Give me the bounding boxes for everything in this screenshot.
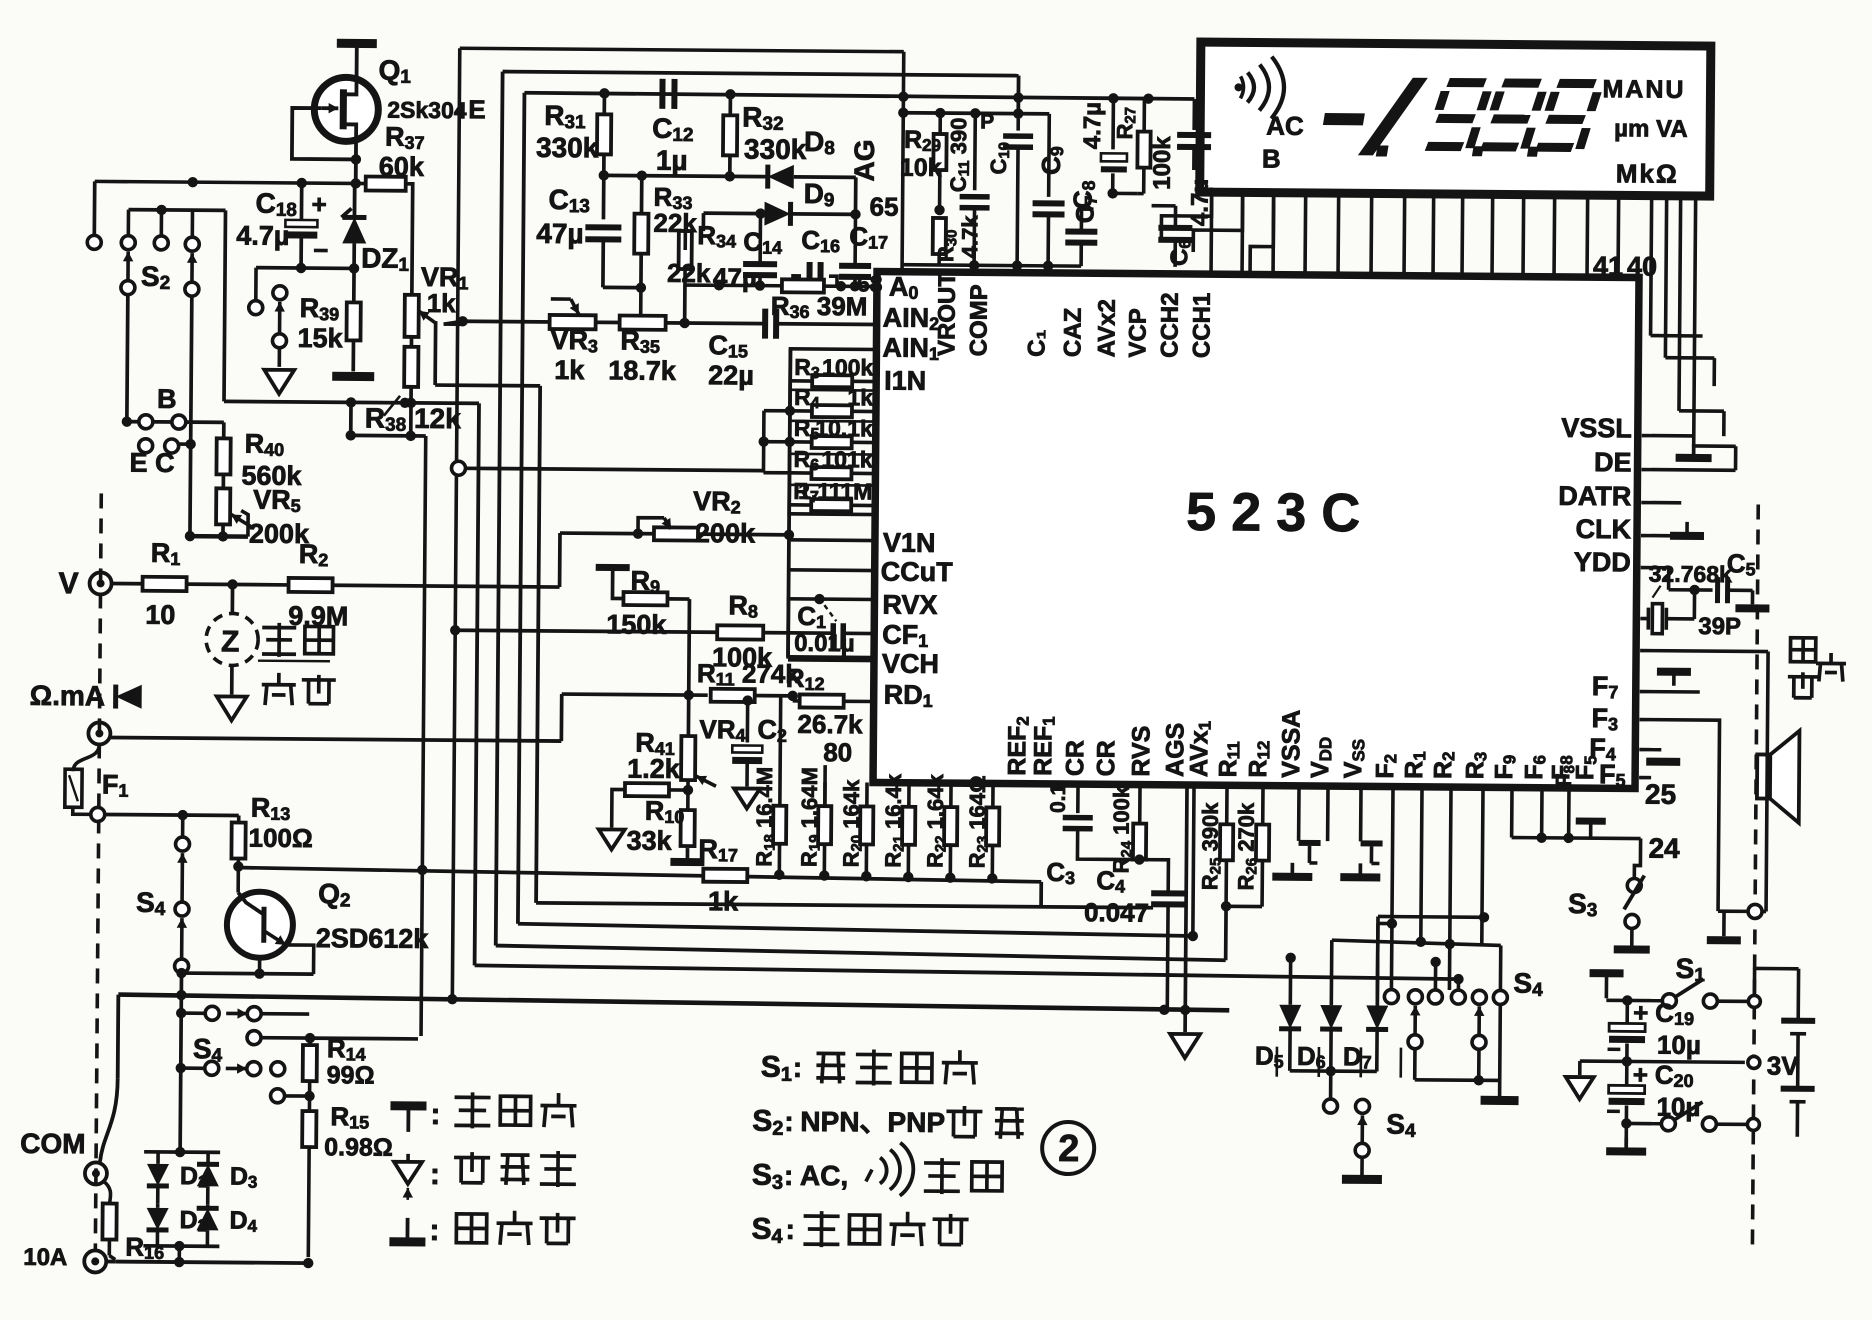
svg-text:Ω.mA: Ω.mA: [30, 680, 106, 712]
svg-text:1.111M: 1.111M: [798, 478, 872, 505]
negative supply S3: [1614, 945, 1650, 953]
wire DATR stub: [1641, 501, 1681, 505]
wire S2c down: [191, 296, 192, 444]
svg-text:CAZ: CAZ: [1059, 308, 1086, 358]
svg-text:VCP: VCP: [1124, 308, 1151, 358]
contact B1: [139, 415, 153, 429]
svg-text:5 2 3 C: 5 2 3 C: [1186, 482, 1361, 543]
resistor R41: [625, 783, 669, 796]
svg-text:R19 1.64M: R19 1.64M: [796, 767, 823, 867]
wire omega to F1 curve: [73, 744, 99, 771]
svg-text:100Ω: 100Ω: [248, 823, 312, 854]
capacitor C4: [1151, 890, 1185, 896]
svg-text:10µ: 10µ: [1657, 1030, 1701, 1060]
bus C y949: [496, 946, 1226, 961]
svg-text:+: +: [311, 189, 326, 219]
svg-text:10.1k: 10.1k: [815, 415, 873, 441]
svg-text:101k: 101k: [821, 446, 873, 472]
wire bridge bottom out: [177, 1246, 181, 1262]
capacitor C6: [1158, 225, 1192, 231]
svg-text:CCuT: CCuT: [881, 557, 954, 588]
svg-text:COMP: COMP: [965, 284, 993, 356]
svg-text:CLK: CLK: [1575, 514, 1631, 544]
wire VR1 wiper row: [444, 322, 463, 326]
bar F4: [1646, 758, 1680, 766]
wire DE stub: [1642, 468, 1736, 472]
switch S2 arrow c: [190, 253, 194, 282]
positive supply CLK: [1685, 522, 1689, 534]
wire R41 left down: [612, 789, 625, 827]
contact r15: [271, 1089, 285, 1103]
wire y273: [256, 266, 354, 270]
negative supply d567: [1342, 1175, 1382, 1184]
svg-text:1k: 1k: [427, 288, 457, 318]
resistor R25: [1220, 824, 1233, 860]
wire Q2 emitter bracket: [286, 945, 314, 974]
contact C2s: [165, 439, 179, 453]
negative supply under R39: [332, 372, 374, 381]
wire BEC row2: [179, 442, 191, 446]
svg-text:VSSA: VSSA: [1277, 710, 1306, 778]
analog ground c19: [1578, 1061, 1582, 1075]
svg-text:E C: E C: [129, 448, 174, 478]
diode D2: [156, 1204, 160, 1208]
zener DZ1: [353, 183, 357, 217]
analog ground R41: [599, 829, 625, 849]
capacitor C6a: [1192, 99, 1196, 130]
svg-text::: :: [785, 1214, 795, 1245]
wire omega to R11 riser: [560, 694, 564, 741]
diode D6: [1320, 1005, 1342, 1029]
analog ground under C2: [734, 788, 760, 808]
wire piezo gnd: [1718, 909, 1748, 913]
wire S2a down: [125, 295, 130, 422]
svg-text:26.7k: 26.7k: [797, 709, 863, 740]
resistor R22: [944, 807, 957, 845]
wire crystal top: [1693, 590, 1697, 619]
svg-text:−: −: [1606, 1098, 1620, 1125]
svg-text:99Ω: 99Ω: [327, 1061, 375, 1089]
svg-text:10: 10: [145, 600, 175, 630]
loop box1 left: [452, 48, 459, 1001]
svg-text:150k: 150k: [606, 609, 667, 639]
wire y113: [903, 113, 1049, 114]
resistor R11: [711, 689, 755, 702]
wire F3 long: [1638, 720, 1719, 912]
switch S2 contact a: [127, 210, 131, 235]
resistor R14: [308, 1038, 312, 1045]
positive supply F7: [1657, 668, 1691, 676]
svg-text:YDD: YDD: [1574, 547, 1631, 577]
contact B2: [172, 415, 186, 429]
legend analog ground: [406, 1154, 410, 1162]
svg-text:65: 65: [869, 191, 898, 221]
wire 10A join: [106, 1260, 115, 1264]
wire C1 to CF1: [843, 631, 874, 635]
svg-text:15k: 15k: [297, 323, 343, 353]
wire y290 C13 R33: [603, 286, 641, 290]
analog ground under contact chain: [264, 370, 294, 394]
svg-text:10A: 10A: [23, 1244, 67, 1271]
wire R11 row: [562, 694, 708, 695]
wire main rail y188: [95, 181, 367, 183]
svg-text:AG: AG: [849, 139, 880, 181]
svg-text:CR: CR: [1061, 740, 1089, 776]
wire F2 col: [1392, 787, 1393, 924]
svg-text:80: 80: [823, 737, 852, 767]
resistor R1: [143, 577, 187, 591]
svg-text:C₁: C₁: [1023, 329, 1050, 357]
negative supply under R10: [686, 848, 690, 862]
loop box2 left: [496, 72, 503, 946]
vertical x477: [475, 403, 479, 965]
svg-text:NPN、PNP: NPN、PNP: [800, 1106, 945, 1138]
resistor R15: [308, 1096, 312, 1111]
wire VSS stub: [1359, 786, 1363, 841]
diode D8: [768, 165, 794, 189]
transistor Q1: [314, 77, 379, 142]
svg-text:DATR: DATR: [1558, 481, 1631, 512]
legend negative text: [456, 1214, 486, 1243]
resistor R9: [612, 567, 622, 598]
wire D8 corner: [854, 177, 858, 214]
resistor R2: [289, 578, 333, 592]
wire BEC row1: [127, 420, 224, 424]
switch S3: [1627, 878, 1641, 892]
wire Q2 collector: [236, 867, 240, 893]
loop box1 top: [460, 48, 904, 51]
wire R25R26 join: [1226, 904, 1262, 908]
negative supply VSSL: [1692, 444, 1696, 458]
display wires right of IC: [1651, 196, 1652, 336]
bus A2 y906: [536, 903, 1153, 908]
wire F5 stub: [1639, 776, 1651, 780]
wire F4 stub: [1639, 748, 1661, 752]
wire VR2 to rail: [698, 532, 789, 536]
potentiometer VR1: [405, 295, 419, 337]
terminal ring omega: [88, 722, 110, 744]
capacitor C14: [743, 261, 777, 267]
svg-text:10k: 10k: [900, 154, 942, 182]
crystal X1: [1652, 604, 1662, 634]
wire VDD stub: [1326, 786, 1330, 841]
loop box2 right: [1016, 76, 1020, 119]
svg-text:3V: 3V: [1767, 1051, 1800, 1081]
svg-text::: :: [430, 1158, 440, 1191]
wire C7 node: [1107, 188, 1117, 198]
wire s4 bottom join: [1413, 1049, 1417, 1080]
wire YDD stub: [1641, 566, 1669, 570]
capacitor C8: [1065, 229, 1097, 235]
diode box dividers: [1275, 1047, 1278, 1077]
svg-text:39P: 39P: [1698, 613, 1741, 640]
wire Q1 source down: [354, 155, 358, 183]
resistor R12: [800, 694, 844, 707]
switch contact chain mid: [273, 286, 287, 300]
wire y287 R36 row: [685, 285, 877, 287]
loop box3 top C12 line: [524, 93, 1194, 99]
svg-text:Z: Z: [221, 625, 240, 658]
capacitor C3: [1076, 784, 1080, 813]
wire F1 row y821: [105, 814, 239, 815]
circled 2: [1042, 1122, 1094, 1174]
resistor R18: [773, 806, 786, 844]
svg-text::: :: [793, 1052, 803, 1083]
svg-text:V: V: [58, 567, 78, 600]
diode D4: [206, 1204, 210, 1208]
wire V to R1: [112, 582, 143, 586]
capacitor C1: [830, 623, 836, 649]
wire R34 column: [683, 285, 687, 323]
svg-text:47µ: 47µ: [536, 218, 584, 249]
resistor R32: [728, 94, 732, 116]
analog ground AGS: [1170, 1034, 1200, 1058]
resistor R20: [860, 806, 873, 844]
resistor R7: [811, 499, 851, 511]
capacitor C11: [973, 113, 977, 190]
svg-text:R36 39M: R36 39M: [771, 291, 868, 323]
switch S4 q2 col: [181, 815, 185, 837]
capacitor C7: [1111, 99, 1115, 149]
capacitor C5: [1715, 577, 1720, 603]
wire F8 col: [1567, 788, 1571, 838]
resistor R16: [102, 1203, 116, 1239]
svg-text:4.7µ: 4.7µ: [236, 220, 289, 250]
wire AVx1 down: [1193, 785, 1194, 936]
svg-text:MkΩ: MkΩ: [1616, 158, 1679, 188]
wire piezo bottom: [1766, 751, 1767, 912]
bar under VSSA: [1290, 863, 1294, 877]
piezo speaker: [1757, 754, 1770, 798]
wire d567 down: [1329, 1071, 1333, 1099]
resistor R31: [602, 93, 606, 115]
svg-text:MANU: MANU: [1602, 75, 1685, 104]
svg-text:1k: 1k: [847, 384, 873, 410]
bus B y927: [518, 924, 1193, 936]
label 3V: [1748, 1056, 1760, 1068]
svg-text:CCH2: CCH2: [1156, 292, 1184, 358]
bridge rail top: [144, 1150, 220, 1154]
wire x222 down: [224, 210, 226, 401]
wire D9 left: [704, 211, 765, 215]
resistor R3: [812, 375, 852, 387]
wire d567 join: [1290, 1069, 1377, 1073]
wire s1 right: [1717, 999, 1754, 1003]
wire F7 stub: [1640, 690, 1700, 694]
wire S2c to bus: [188, 444, 192, 536]
resistor R6: [811, 467, 851, 479]
svg-text:24: 24: [1648, 833, 1680, 864]
bus E left drop: [116, 995, 120, 1079]
negative supply above Q1: [355, 43, 359, 79]
wire c19 node: [1606, 998, 1662, 1002]
wire VSSA stub: [1297, 786, 1301, 841]
diode D9: [764, 202, 790, 226]
contact E1: [139, 439, 153, 453]
svg-text:33k: 33k: [626, 826, 672, 856]
wire x184 down3: [178, 1068, 182, 1152]
wire col3 stub: [1434, 962, 1438, 990]
resistor R37: [366, 177, 406, 191]
s4 row1: [176, 1008, 186, 1018]
speaker icon on display: [1247, 72, 1254, 102]
wire crystal row: [1640, 617, 1648, 621]
wire R9 down: [687, 599, 691, 695]
legend positive supply: [390, 1101, 426, 1110]
svg-text:R22 1.64k: R22 1.64k: [922, 773, 949, 868]
svg-text:V1N: V1N: [883, 528, 936, 558]
svg-text:R26 270k: R26 270k: [1233, 802, 1260, 891]
svg-text:R24 100k: R24 100k: [1108, 785, 1135, 874]
wire R17 bus: [236, 868, 1041, 882]
svg-text:R18 16.4M: R18 16.4M: [751, 767, 778, 867]
display reading -1.999: [1318, 77, 1604, 158]
wire F6 col: [1540, 788, 1544, 838]
s4 right arrows: [1413, 1006, 1417, 1034]
svg-text:2Sk304: 2Sk304: [387, 97, 467, 124]
wire R1 col: [1421, 787, 1422, 942]
ladder left stubs: [764, 409, 790, 413]
svg-text:330k: 330k: [744, 133, 807, 164]
negative supply crystal: [1751, 590, 1755, 604]
vertical x538: [536, 386, 540, 903]
wire R8 row y634: [455, 630, 833, 633]
wire COM to R16: [104, 1181, 111, 1203]
svg-text:R23 164Ω: R23 164Ω: [964, 775, 991, 868]
wire R2 col: [1450, 787, 1451, 944]
bus y938 short: [1332, 940, 1501, 945]
svg-text:COM: COM: [20, 1128, 86, 1160]
display left stair wires: [1161, 192, 1211, 242]
bus D y969: [475, 965, 1459, 979]
svg-text::: :: [784, 1106, 794, 1137]
capacitor C9: [1047, 114, 1051, 197]
potentiometer VR2: [654, 527, 698, 540]
diode D7: [1366, 1005, 1388, 1029]
loop box1 right: [902, 52, 904, 272]
wire y216: [129, 208, 226, 212]
wire y407 link: [224, 401, 479, 403]
ladder divider: [789, 484, 875, 487]
wire RVX on box top: [814, 594, 824, 604]
bar under VSS: [1358, 863, 1362, 877]
svg-text:R20 164k: R20 164k: [838, 779, 865, 868]
resistor R30: [933, 218, 946, 254]
svg-text::: :: [430, 1098, 440, 1131]
wire VCH: [788, 658, 874, 662]
resistor R19: [818, 806, 831, 844]
wire VSSL stub: [1642, 434, 1694, 438]
s4 right contacts: [1384, 990, 1398, 1004]
svg-text:CCH1: CCH1: [1188, 293, 1216, 359]
switch S2 contact b: [160, 210, 164, 235]
resistor R4: [812, 405, 852, 417]
wire R17bus corner: [1039, 882, 1043, 907]
svg-text:0.98Ω: 0.98Ω: [324, 1133, 393, 1162]
wire V1N: [789, 538, 875, 542]
positive supply near 24: [1576, 818, 1606, 825]
wire CCuT: [789, 568, 875, 572]
potentiometer VR4: [681, 736, 695, 780]
svg-text:18.7k: 18.7k: [608, 355, 677, 386]
transistor Q2: [227, 891, 294, 958]
svg-text:P: P: [980, 110, 994, 133]
resistor R36: [782, 279, 824, 292]
svg-text:100k: 100k: [1149, 136, 1176, 190]
wire y178: [604, 175, 768, 176]
wire c20 gnd: [1624, 1123, 1628, 1145]
ladder divider: [790, 389, 876, 392]
wire D5 col: [1289, 958, 1293, 1005]
switch S2 contact c: [191, 210, 195, 236]
legend negative supply: [406, 1218, 410, 1242]
svg-text:AVx2: AVx2: [1093, 299, 1120, 357]
resistor R24: [1133, 824, 1146, 860]
svg-text:µm VA: µm VA: [1614, 115, 1688, 143]
switch S4 d567: [1355, 1099, 1369, 1113]
svg-text:1µ: 1µ: [656, 145, 688, 176]
label yadianpian: [1790, 638, 1815, 662]
wire R3 col: [1482, 787, 1483, 945]
dashed probe line left: [95, 493, 101, 1251]
svg-text:1.2k: 1.2k: [627, 754, 681, 784]
capacitor C12: [659, 79, 665, 109]
resistor R21: [902, 807, 915, 845]
resistor R27: [1137, 132, 1150, 168]
overvoltage protector Z: [206, 613, 258, 665]
svg-text:−: −: [1607, 1036, 1621, 1063]
wire F9 col: [1510, 788, 1514, 838]
negative supply s4 right: [1498, 1080, 1502, 1096]
resistor R8: [717, 625, 763, 639]
wire R2 east: [333, 585, 560, 587]
single contact row2: [247, 1031, 261, 1045]
vertical x425: [421, 436, 426, 1036]
wire battery top: [1755, 967, 1799, 971]
terminal V: [89, 572, 111, 594]
loop box2 top: [503, 72, 1019, 76]
analog ground under Z: [217, 696, 247, 720]
svg-text:2: 2: [1058, 1128, 1079, 1170]
resistor R40: [222, 422, 226, 438]
diode D1: [156, 1152, 160, 1164]
capacitor C13: [602, 177, 606, 219]
resistor R26: [1256, 825, 1269, 861]
svg-text:R25 390k: R25 390k: [1197, 802, 1224, 891]
svg-text:R38 12k: R38 12k: [365, 403, 462, 437]
diode D3: [206, 1152, 210, 1164]
wire AIN2 row y325: [463, 321, 765, 323]
positive supply R9: [596, 564, 630, 571]
capacitor C15: [762, 309, 768, 339]
diode D5: [1279, 1005, 1301, 1029]
resistor R34: [679, 231, 692, 269]
wire C16 hook: [793, 276, 801, 286]
svg-text:E: E: [468, 94, 486, 124]
svg-text:330k: 330k: [536, 132, 599, 163]
bridge rail bottom: [143, 1244, 219, 1248]
C1 box: [788, 599, 874, 658]
resistor R29: [933, 134, 946, 170]
wire left hook contact: [254, 268, 258, 300]
resistor R17: [703, 869, 747, 882]
svg-text:I1N: I1N: [884, 366, 926, 396]
svg-text:0.047: 0.047: [1084, 897, 1149, 928]
legend positive text: [455, 1095, 491, 1099]
svg-text:B: B: [1262, 144, 1281, 174]
wire battery bottom: [1716, 1123, 1753, 1125]
label R38 12k: [384, 396, 400, 416]
